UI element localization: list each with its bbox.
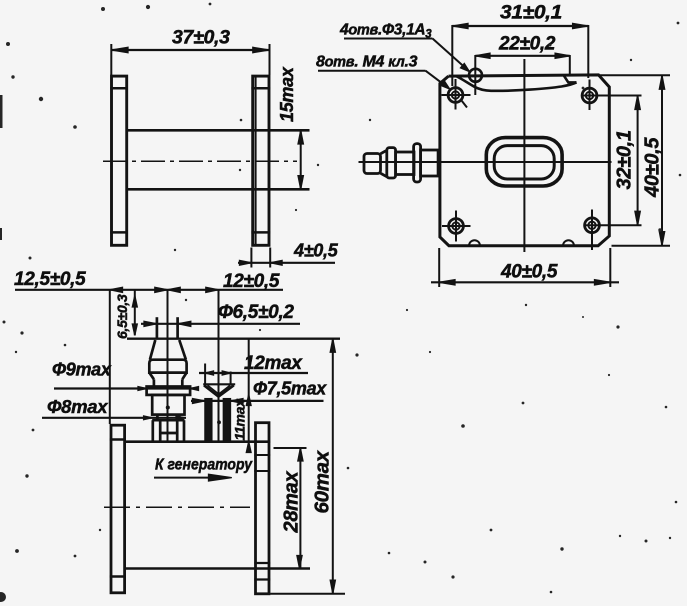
wire: connector centerline — [167, 290, 169, 441]
connector waist — [156, 415, 159, 421]
wire: extension 22 left — [474, 55, 476, 95]
hole small top (Ф3,1) — [469, 69, 482, 82]
svg-text:12±0,5: 12±0,5 — [223, 271, 280, 292]
waveguide opening inner — [494, 146, 554, 179]
LOWER VIEW — [14, 269, 345, 594]
svg-text:12max: 12max — [244, 353, 303, 374]
hole bolt bottom-left with crosshair — [449, 219, 464, 234]
FRONT VIEW — [316, 3, 670, 288]
coax connector side (front view) — [364, 144, 438, 182]
wire: probe centerline — [218, 290, 220, 441]
svg-text:60max: 60max — [311, 449, 334, 513]
wire: centerline axis — [103, 160, 297, 162]
waveguide opening outer — [486, 138, 562, 186]
svg-text:Ф7,5max: Ф7,5max — [253, 379, 327, 399]
dimension 22±0,2 line — [475, 55, 570, 57]
dimension 15max line — [300, 130, 302, 189]
svg-text:15max: 15max — [277, 66, 297, 122]
dimension 12,5 / 12 shared line — [15, 289, 283, 291]
connector disc flange — [147, 387, 191, 395]
wire: top edge step notch — [564, 75, 577, 82]
dimension 11max vertical — [248, 339, 250, 442]
svg-text:28max: 28max — [281, 471, 303, 534]
svg-text:37±0,3: 37±0,3 — [172, 27, 230, 49]
wire: waveguide tube bottom line — [128, 188, 310, 191]
svg-text:32±0,1: 32±0,1 — [614, 130, 636, 189]
connector taper below barrel — [149, 373, 154, 380]
wire: extension lines flange thickness — [250, 248, 252, 268]
dimension 12max line — [199, 372, 308, 374]
wire: extension line left flange top — [110, 44, 112, 75]
wire: extension 22 right — [569, 55, 571, 75]
wire: waveguide bottom line — [126, 567, 310, 570]
svg-text:8отв. М4 кл.3: 8отв. М4 кл.3 — [316, 54, 418, 71]
probe tube bars — [205, 399, 212, 442]
svg-text:4±0,5: 4±0,5 — [293, 241, 339, 261]
wire: extension line right flange top — [269, 44, 271, 75]
connector barrel — [149, 360, 186, 373]
svg-text:Ф9max: Ф9max — [52, 360, 112, 380]
wire: scalloped top edge — [457, 77, 577, 91]
dimension 37±0,3 line — [111, 49, 269, 51]
svg-text:К генератору: К генератору — [155, 457, 253, 474]
hole bolt top-right with crosshair — [582, 88, 597, 103]
dimension Ф6,5±0,2 line — [141, 323, 300, 325]
svg-text:12,5±0,5: 12,5±0,5 — [14, 269, 86, 290]
wire: extension 31 right — [587, 25, 589, 78]
svg-text:31±0,1: 31±0,1 — [500, 3, 562, 24]
wire: extension flange face — [109, 290, 111, 424]
flange left (lower view) — [111, 425, 125, 593]
notch semicircle bottom edge left — [469, 240, 480, 245]
dimension 31±0,1 line — [452, 25, 588, 27]
svg-text:Ф8max: Ф8max — [47, 396, 108, 417]
coax connector body (lower view) — [147, 317, 191, 441]
wire: extension 40 bottom right — [612, 245, 671, 247]
svg-text:40±0,5: 40±0,5 — [642, 137, 664, 198]
probe center dot — [218, 421, 221, 424]
flange right (side view) — [253, 76, 269, 245]
connector hex body — [152, 395, 184, 415]
flange left (side view) — [112, 76, 127, 245]
dimension 4±0,5 line — [238, 262, 335, 264]
wire: vertical centerline front view — [523, 59, 525, 252]
wire: waveguide tube top line — [128, 129, 310, 132]
connector top cylinder — [156, 317, 159, 339]
dimension 40±0,5 bottom line — [431, 281, 619, 283]
connector base columns — [151, 420, 154, 441]
probe funnel — [203, 383, 235, 385]
SIDE VIEW TOP — [103, 27, 339, 268]
svg-text:22±0,2: 22±0,2 — [498, 34, 556, 55]
svg-text:40±0,5: 40±0,5 — [500, 262, 558, 283]
wire: horizontal centerline front view — [359, 161, 612, 163]
wire: extension 40 bottom right-2 — [609, 248, 611, 287]
hole bolt top-left with crosshair — [448, 88, 463, 103]
wire: leader to bolt hole — [426, 71, 449, 89]
hole bolt bottom-right with crosshair — [585, 218, 600, 233]
wire: extension 31 left — [451, 25, 453, 86]
wire: waveguide centerline — [104, 506, 250, 508]
dimension 28max vertical — [274, 447, 307, 449]
dimension Ф7,5max line — [191, 400, 324, 402]
svg-text:Ф6,5±0,2: Ф6,5±0,2 — [218, 302, 294, 323]
wire: leader to small hole — [433, 39, 469, 71]
dimension 60max vertical — [332, 339, 334, 594]
dimension 32±0,1 line — [637, 96, 639, 226]
dimension 6,5±0,3 vertical — [134, 290, 136, 336]
dimension 40±0,5 right line — [661, 75, 663, 246]
svg-text:6,5±0,3: 6,5±0,3 — [114, 294, 130, 339]
wire: extension 40 bottom left — [438, 248, 440, 287]
flange right (lower view) — [256, 423, 270, 594]
notch semicircle bottom edge right — [563, 240, 574, 245]
connector cone — [150, 340, 155, 360]
flange plate outline (front view) — [440, 75, 609, 246]
svg-text:11max: 11max — [232, 398, 248, 441]
wire: waveguide top line — [126, 440, 270, 443]
wire: extension 40 top right — [588, 74, 670, 76]
wire: probe extension lines — [204, 364, 206, 385]
connector center dot — [166, 406, 169, 409]
